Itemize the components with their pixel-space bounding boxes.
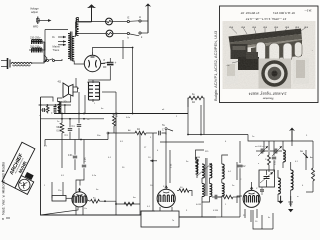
switch S3 Ta [162,124,173,135]
electrolytic C1 8MF [103,59,117,69]
svg-text:Bulgin: AC/VP1, AC/S2, AC2/PEN: Bulgin: AC/VP1, AC/S2, AC2/PEN, UU3 [213,30,218,101]
wire [44,55,47,63]
resistor R10 [217,195,240,199]
wire [76,22,92,37]
wire [102,91,116,93]
svg-text:0.002: 0.002 [275,160,277,165]
svg-text:34.5—: 34.5— [304,9,312,12]
line fuse F2 [30,46,42,53]
cathode bias resistor R2 [52,182,72,201]
wire [74,61,84,65]
wire [200,105,202,135]
resistor R5 [177,187,192,196]
resistor R4 4Ω [135,129,146,135]
wire grid bus [45,139,108,141]
wire [44,30,46,59]
ground G1 [278,196,284,204]
wire [239,141,241,163]
wire [61,95,71,105]
junction blob [148,157,157,162]
output transformer T2 secondary [94,82,100,100]
aerial terminal Ae [300,150,308,158]
speaker voice coil wires [73,87,79,92]
wire [61,114,63,119]
wire [41,97,54,102]
resistor R11a [47,105,50,114]
wire [291,141,293,146]
svg-text:MF: MF [103,66,107,69]
resistor R6 [189,94,203,104]
wire [45,29,68,31]
left margin text NVHR [1,161,6,215]
wire [139,133,141,215]
wire [109,58,111,62]
oscillator coil L3 [278,170,280,202]
resistor R8 [265,141,271,172]
wire junction [132,47,134,49]
wire [88,80,100,83]
svg-text:MFD: MFD [117,112,119,117]
wire [58,98,63,102]
resistor R7 [196,157,199,178]
wire [187,114,189,135]
fuse F3 [33,17,39,29]
svg-text:4Ω: 4Ω [137,129,140,131]
svg-text:0.0003: 0.0003 [204,165,206,172]
wire [31,42,44,63]
svg-text:1T 95T/AT .9T: 1T 95T/AT .9T [240,11,259,15]
value labels [44,103,313,223]
wire [79,180,81,186]
wire decoupling rail [39,104,72,106]
trimmer C14 [260,187,264,195]
IFT2 winding upper [222,164,225,179]
wire [202,178,210,184]
wire [162,133,167,186]
label 0.05 MFD [57,127,62,133]
wire [112,21,127,23]
wire HT to rectifier [75,36,76,37]
primary tap 0v [52,35,66,39]
wire rail3 [248,135,313,142]
IFT1 primary upper [196,157,201,174]
mains cord (twisted flex) [11,62,32,66]
resistor R1 [60,119,64,168]
photo header text (rotated) [240,9,311,21]
svg-text:4Ω: 4Ω [58,80,61,84]
grid leak switch [107,132,109,140]
valve V3 pins [160,207,172,211]
line fuse F1 [30,37,42,45]
primary tap 210v [58,40,66,42]
switch S2a [127,15,148,23]
capacitor C7 0.05MFD [82,140,87,176]
wire [196,150,205,160]
capacitor C2 [39,108,47,117]
choke block L5 [54,102,67,112]
wire earth rail [65,215,216,217]
IFT1 core [206,158,207,196]
IF-detector valve V3 AC/S2 [157,186,175,208]
svg-text:B: B [2,217,4,221]
wire V2 to earth corner [41,207,79,215]
wire plate V2 [84,200,90,210]
transformer T1 HT secondary winding [72,37,74,62]
wire HT rail [54,113,188,115]
wire [163,186,166,188]
svg-text:Trans: Trans [53,48,60,52]
wire [84,95,86,114]
wire [101,62,111,63]
svg-text:4Ω: 4Ω [192,102,195,104]
photo of chassis [223,21,316,89]
trimmer arrow [258,146,268,156]
transformer T1 heater winding [76,18,78,36]
mains plug P1 [1,58,10,69]
capacitor C8 [159,129,164,136]
wire rectifier output [100,64,111,81]
NVHR archive stamp [2,142,47,194]
svg-text:MFD: MFD [33,26,38,29]
svg-text:230-250v: 230-250v [30,37,41,40]
svg-text:.3.A əldaT “nɡisəʒ” əldаT4: .3.A əldaT “nɡisəʒ” əldаT4 [249,92,288,96]
wire [305,150,307,170]
pilot lamp PL2 [106,30,113,37]
wire [146,132,157,134]
wire [152,133,154,211]
wire [187,98,189,107]
resistor R3 Ea [91,198,117,205]
transformer T1 primary winding [68,34,70,59]
coil L2 [283,141,286,168]
pilot lamp PL1 [106,18,113,25]
caption Bulgin valves [213,30,218,101]
loudspeaker LS [58,80,74,98]
svg-text:Ned. Ver. v. Historie v/d Radi: Ned. Ver. v. Historie v/d Radio [1,161,6,215]
svg-text:M: M [314,173,316,175]
wire screen rail [41,118,105,120]
wire [44,140,46,147]
capacitor C5 [65,119,73,140]
wire output plate [88,82,93,103]
wire [29,42,45,50]
label [243,188,258,217]
wire [203,107,205,135]
label 0.05MFD vertical [113,112,119,117]
switch S2b [127,32,148,40]
wire [306,191,313,193]
variable capacitor VC1 [260,170,273,187]
label voltage adjust [30,7,39,14]
valve V4 pins [245,209,257,222]
field coil L1 [58,101,62,114]
trimmer arrow2 [272,146,282,156]
svg-text:E: E [128,16,130,20]
wire [202,197,210,203]
capacitor C11 [270,149,282,154]
wire [188,98,204,114]
capacitor C15 [212,195,221,199]
svg-text:Receiver: Receiver [263,97,274,101]
capacitor C13 0.002 [272,141,277,172]
chassis arrow A1 [88,4,96,22]
wire [272,213,274,229]
wire [115,202,140,206]
IFT2 winding lower [222,183,224,196]
svg-text:9T 11.5,000 9T1: 9T 11.5,000 9T1 [273,11,295,15]
frequency changer valve V4 AC/VP1 [243,187,260,208]
wire [222,155,228,217]
svg-text:200-230v: 200-230v [30,46,41,49]
wire HT bus [93,48,133,114]
wire [251,182,253,187]
wire [253,210,273,229]
wire rail2 [187,134,248,136]
svg-text:adjust: adjust [31,10,38,14]
wire top-cap V3 [170,150,173,183]
IFT1 primary lower [202,184,204,197]
chassis arrow A3 [289,128,295,142]
wire [52,105,65,114]
capacitor C6 0.01 [68,140,77,171]
photo halftone grain [223,21,316,89]
capacitor C12 [263,141,265,152]
primary tap 240v [58,44,66,46]
svg-text:4s: 4s [268,217,270,219]
wire [236,162,238,180]
svg-text:0.330: 0.330 [292,174,294,180]
svg-text:0.330: 0.330 [213,210,219,212]
wire [42,41,46,43]
capacitor C10 0.0001 [255,146,268,154]
arrow to HT [38,19,52,22]
wire [160,141,204,143]
terminal B [2,217,10,221]
label Mains Trans [53,45,61,52]
wire [113,33,127,35]
svg-text:0.220: 0.220 [223,166,225,172]
rectifier valve V1 UU3 [84,52,100,72]
wire [76,78,78,87]
IFT1 secondary lower [210,164,212,178]
svg-text:H: H [139,15,141,19]
photo frame [220,6,319,103]
photo caption bottom (rotated) [249,92,288,101]
wire [79,18,106,22]
IFT1 secondary upper [202,164,206,178]
svg-text:C: C [162,129,164,132]
variable arrow [197,163,212,176]
output valve V2 AC2/PEN [72,188,87,207]
wire [74,33,106,35]
on-off switch S1 [43,58,62,62]
chassis arrow A2 [145,3,151,33]
IFT1 secondary lower2 [210,184,212,197]
capacitor C4 0.1 [72,114,82,140]
svg-text:0.01: 0.01 [68,155,73,157]
wire cathode loop [141,211,179,227]
wire [201,202,203,217]
resistor R9 [312,141,317,192]
wire [122,40,124,59]
aerial coil L4 [291,162,294,200]
svg-text:+: + [115,61,117,65]
valve V2 pin wires [76,206,83,215]
wire AVC loop [41,97,66,215]
wire [216,175,240,217]
ground G2 [288,196,293,212]
capacitor C9 [238,165,247,175]
svg-text:0.05: 0.05 [85,157,87,162]
tuning gang box [259,170,275,187]
wire [237,196,242,203]
transformer T1 core [70,32,72,61]
grid stopper [76,175,84,192]
svg-text:0.033: 0.033 [196,204,202,206]
wire [78,92,80,114]
output transformer T2 primary [89,82,95,100]
wire [115,92,117,215]
svg-text:4T —375A, 3.14 T—45 —9.5T: 4T —375A, 3.14 T—45 —9.5T [246,17,287,21]
svg-text:0.330: 0.330 [284,153,286,158]
wire [108,132,135,134]
resistor R11 50,000 [113,114,118,134]
